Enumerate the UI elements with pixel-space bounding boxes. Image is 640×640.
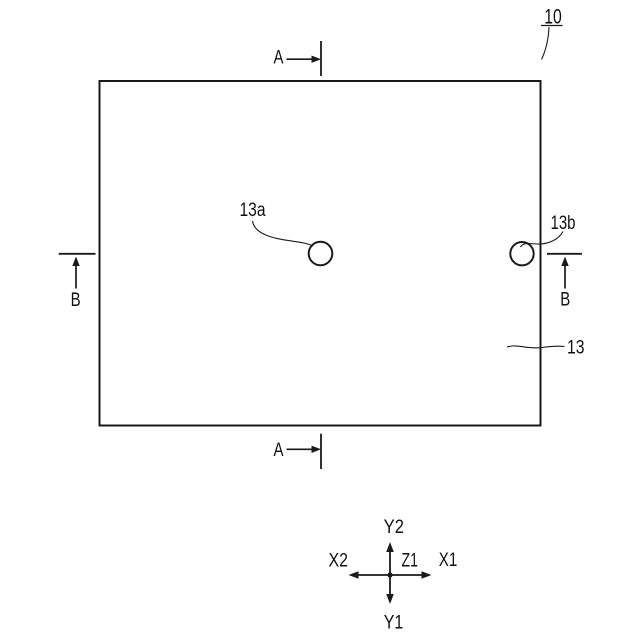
svg-text:X2: X2 xyxy=(329,551,349,572)
svg-text:B: B xyxy=(71,290,81,311)
section cut line A (bottom) xyxy=(320,434,322,469)
svg-text:A: A xyxy=(274,440,284,461)
axis origin dot Z1 xyxy=(387,572,392,577)
section arrow A (top) xyxy=(287,58,314,60)
leader line from 10 xyxy=(542,27,550,60)
hole 13b (circle) xyxy=(510,242,533,265)
section arrow A (bottom) xyxy=(287,448,314,450)
axis arrowhead X2 (left) xyxy=(349,571,359,579)
plate body 13 (rectangle outline) xyxy=(100,81,541,426)
svg-text:B: B xyxy=(560,290,570,311)
leader line from 13 (wavy) xyxy=(507,346,565,348)
section arrow B (right) xyxy=(564,264,566,289)
leader line from 13b xyxy=(521,232,564,248)
svg-text:Z1: Z1 xyxy=(402,551,419,572)
svg-text:A: A xyxy=(274,48,284,69)
svg-text:Y2: Y2 xyxy=(384,517,404,538)
section arrow B (left) xyxy=(75,264,77,289)
svg-text:13: 13 xyxy=(567,338,585,359)
label 10 underline xyxy=(541,25,563,27)
section cut line B (left) xyxy=(59,253,96,255)
axis arrowhead X1 (right) xyxy=(422,571,432,579)
svg-text:13a: 13a xyxy=(240,200,266,221)
svg-text:X1: X1 xyxy=(439,550,458,571)
axis arrowhead Y1 (bottom) xyxy=(386,594,394,604)
svg-text:13b: 13b xyxy=(551,213,576,234)
coordinate axes: vertical axis line Y2-Y1 xyxy=(389,549,391,597)
section cut line A (top) xyxy=(320,41,322,76)
svg-text:Y1: Y1 xyxy=(384,613,404,634)
axis arrowhead Y2 (top) xyxy=(386,542,394,552)
coordinate axes: horizontal axis line X2-X1 xyxy=(355,574,425,576)
section cut line B (right) xyxy=(547,253,582,255)
leader line from 13a xyxy=(253,221,314,246)
hole 13a (circle) xyxy=(309,242,333,266)
